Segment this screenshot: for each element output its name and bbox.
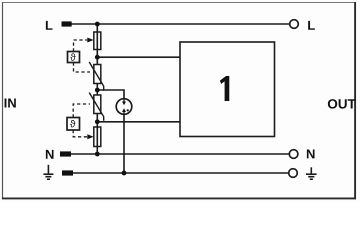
label N right (307, 149, 315, 158)
node B (junction dot) (95, 88, 100, 93)
wire PE horizontal (73, 172, 289, 174)
terminal PE (black) (62, 170, 73, 175)
node D (junction dot on N line) (95, 152, 100, 157)
wire node to box upper (97, 56, 180, 58)
node C (junction dot) (95, 119, 100, 124)
fuse F2 (94, 127, 101, 147)
output terminal PE (circle) (289, 169, 298, 178)
dashed link T1 to varistor RV1 (74, 63, 91, 73)
label L left (46, 21, 53, 30)
node A (junction dot) (95, 55, 100, 60)
output terminal N (circle) (289, 150, 298, 159)
thermal monitor box T1 (68, 52, 80, 63)
wire node to box lower (97, 121, 180, 123)
label IN (5, 99, 16, 108)
dashed link T1 to fuse F1 with arrow (74, 40, 88, 52)
label L right (308, 21, 315, 30)
wire L top horizontal (71, 23, 290, 25)
wire varistor1 gap (96, 57, 98, 64)
label N left (46, 150, 54, 159)
wire left branch vertical (96, 24, 98, 57)
ground symbol left (43, 165, 53, 179)
varistor RV1 (89, 62, 104, 91)
varistor RV2 (89, 93, 104, 121)
wire to spark gap (97, 90, 124, 99)
spark gap G1 (116, 99, 132, 115)
output terminal L (circle) (290, 20, 299, 29)
node E (junction dot on PE line) (122, 171, 127, 176)
fuse F1 (94, 32, 101, 50)
dashed link T2 to varistor RV2 (73, 104, 90, 118)
wire spark gap to PE (123, 114, 125, 173)
terminal N (black) (60, 151, 71, 156)
main device box 1 (180, 42, 275, 137)
ground symbol right (306, 167, 317, 179)
wire N horizontal (71, 153, 289, 155)
wire below varistor2 through fuse2 (96, 114, 98, 155)
node L-branch (junction dot) (95, 22, 100, 27)
thermal monitor box T2 (67, 118, 80, 131)
label OUT (328, 99, 356, 109)
terminal L (black) (62, 21, 72, 26)
dashed link T2 to fuse F2 with arrow (73, 130, 87, 137)
